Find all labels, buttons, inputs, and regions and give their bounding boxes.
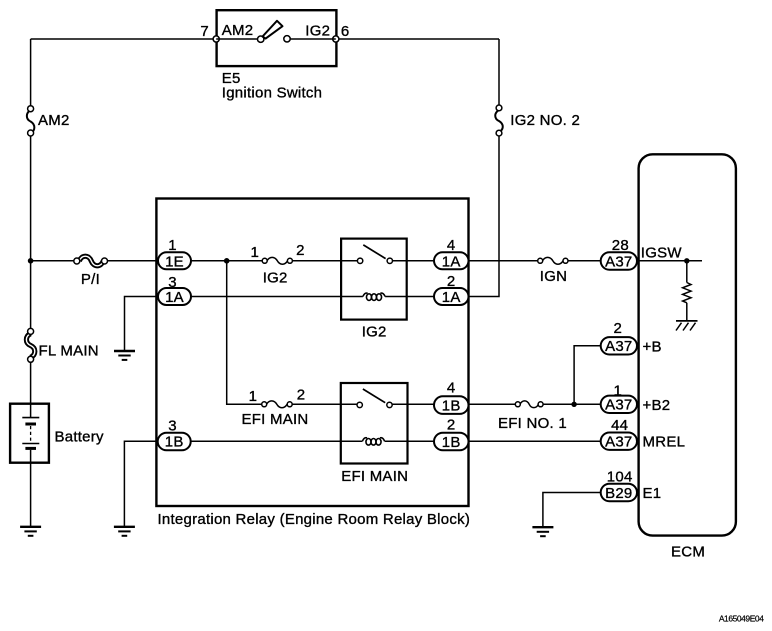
svg-text:Ignition Switch: Ignition Switch xyxy=(222,85,322,102)
wire from ignition switch pin 6 to IG2 NO.2 rail xyxy=(336,38,499,40)
svg-text:3: 3 xyxy=(168,417,177,434)
wire branch down from row1 junction to EFI MAIN fuse row xyxy=(227,261,262,405)
svg-text:1: 1 xyxy=(614,382,623,399)
wire EFI NO.1 fuse to +B2 pin xyxy=(543,403,601,405)
svg-text:IGSW: IGSW xyxy=(641,245,683,262)
label Ignition Switch xyxy=(222,85,322,102)
svg-text:1: 1 xyxy=(251,244,260,261)
label FL MAIN xyxy=(39,342,99,359)
pin B29 104 oval (E1) xyxy=(601,484,637,502)
label E1 xyxy=(643,485,662,502)
wire left rail vertical segment above AM2 fuse xyxy=(30,39,32,106)
ground for 1A pin 3 xyxy=(114,351,135,360)
label IG2 contact xyxy=(305,23,330,40)
relay IG2 box xyxy=(341,239,407,320)
wire P/I row from rail to fuse xyxy=(31,260,74,262)
wire 1B left to ground xyxy=(124,441,157,527)
switch movable contact circle xyxy=(258,36,264,42)
wire from P/I fuse to pin 1E xyxy=(108,260,161,262)
label EFI MAIN fuse xyxy=(242,411,309,428)
svg-text:E1: E1 xyxy=(643,485,662,502)
wire from 1B pin4 to EFI NO.1 fuse xyxy=(469,403,516,405)
svg-text:1A: 1A xyxy=(442,289,461,306)
node junction dot +B branch xyxy=(571,402,576,407)
pin A37 44 oval (MREL) xyxy=(601,433,637,451)
pin A37 28 oval xyxy=(601,252,637,270)
wire top horizontal from battery rail to ignition switch pin 7 xyxy=(31,38,216,40)
svg-text:2: 2 xyxy=(447,273,456,290)
fusible link P/I xyxy=(74,256,108,266)
svg-text:2: 2 xyxy=(296,242,305,259)
wire left rail from FL MAIN to battery xyxy=(30,362,32,417)
label EFI NO. 1 xyxy=(498,415,567,432)
label MREL xyxy=(643,434,686,451)
svg-text:1B: 1B xyxy=(442,434,461,451)
svg-text:1: 1 xyxy=(168,237,177,254)
svg-text:EFI NO. 1: EFI NO. 1 xyxy=(498,415,567,432)
label Integration Relay (Engine Room Relay Block) xyxy=(158,511,471,528)
label IG2 fuse xyxy=(263,269,288,286)
wire inside switch from pin 7 to movable contact xyxy=(216,38,257,40)
label +B xyxy=(643,338,662,355)
svg-text:3: 3 xyxy=(168,274,177,291)
wire 1A left to ground xyxy=(125,297,159,352)
fuse EFI NO. 1 xyxy=(515,401,543,408)
svg-text:7: 7 xyxy=(200,23,209,40)
label IG2 NO. 2 xyxy=(510,112,580,129)
fusible link FL MAIN xyxy=(26,328,34,362)
label AM2 contact xyxy=(222,22,254,39)
ignition switch box E5 xyxy=(217,10,337,66)
ground for 1B pin 3 xyxy=(114,527,135,536)
svg-text:2: 2 xyxy=(447,417,456,434)
wire branch up to +B pin xyxy=(574,346,601,405)
integration relay outer box xyxy=(156,199,468,507)
label 2 at IG2 fuse xyxy=(296,242,305,259)
svg-text:2: 2 xyxy=(614,320,623,337)
wire left rail between AM2 fuse and FL MAIN xyxy=(30,136,32,329)
label pin 3 above 1B left xyxy=(168,417,177,434)
node junction dot row1 branch xyxy=(224,258,230,264)
pin 1A right row2 oval (2) xyxy=(434,288,469,306)
svg-text:AM2: AM2 xyxy=(38,112,70,129)
label AM2 fuse xyxy=(38,112,70,129)
switch fixed contact circle xyxy=(284,36,290,42)
svg-text:FL MAIN: FL MAIN xyxy=(39,342,99,359)
svg-text:Integration Relay (Engine Room: Integration Relay (Engine Room Relay Blo… xyxy=(158,511,471,528)
label 1 at EFI MAIN fuse xyxy=(249,388,258,405)
label pin 1 above 1E xyxy=(168,237,177,254)
svg-text:28: 28 xyxy=(612,237,629,254)
pin 1E oval xyxy=(158,252,191,270)
svg-text:1: 1 xyxy=(249,388,258,405)
fuse IGN xyxy=(538,257,568,264)
label pin 104 xyxy=(607,468,633,485)
wire IGN fuse to A37 pin 28 xyxy=(568,260,601,262)
label pin 2 above +B xyxy=(614,320,623,337)
svg-text:A37: A37 xyxy=(605,338,632,355)
wire IG2 fuse to relay switch xyxy=(292,260,357,262)
svg-text:104: 104 xyxy=(607,468,633,485)
label E5 xyxy=(222,70,241,87)
wire battery negative to ground xyxy=(30,450,32,527)
label 1 at IG2 fuse xyxy=(251,244,260,261)
svg-text:1A: 1A xyxy=(165,289,184,306)
label P/I xyxy=(81,271,100,288)
relay EFI MAIN switch contacts xyxy=(357,389,392,408)
svg-text:1B: 1B xyxy=(165,434,184,451)
pin 1A right row1 oval (4) xyxy=(434,252,469,270)
fuse IG2 xyxy=(262,257,292,264)
svg-text:4: 4 xyxy=(447,380,456,397)
svg-text:+B2: +B2 xyxy=(643,397,671,414)
svg-text:2: 2 xyxy=(297,387,306,404)
wire MREL from 1B pin2 to A37 44 xyxy=(469,440,602,442)
wire E1 to ground xyxy=(543,493,601,528)
svg-text:+B: +B xyxy=(643,338,662,355)
label pin 6 xyxy=(341,23,350,40)
wire row1 from 1E to IG2 fuse xyxy=(191,260,262,262)
svg-text:IG2: IG2 xyxy=(263,269,288,286)
svg-text:IG2: IG2 xyxy=(305,23,330,40)
svg-text:1E: 1E xyxy=(165,253,184,270)
chassis ground for resistor xyxy=(676,321,698,331)
label pin 2 above right 1A row2 xyxy=(447,273,456,290)
ground battery xyxy=(20,527,41,536)
fuse EFI MAIN xyxy=(262,401,293,408)
svg-text:A165049E04: A165049E04 xyxy=(719,614,764,624)
svg-text:6: 6 xyxy=(341,23,350,40)
fuse IG2 NO.2 xyxy=(495,105,503,136)
pin 7 terminal circle xyxy=(213,36,219,42)
relay IG2 coil xyxy=(363,293,385,300)
pin A37 1 oval (+B2) xyxy=(601,396,637,414)
wire relay EFI switch to pin 4 1B xyxy=(392,403,434,405)
ECM box xyxy=(639,154,736,535)
label Battery xyxy=(55,429,105,446)
pin 1B right row3 oval (4) xyxy=(434,396,469,414)
pin 1B left oval xyxy=(158,433,191,451)
wire IGSW internal xyxy=(637,260,702,262)
wire from 1A pin4 to IGN fuse xyxy=(469,260,538,262)
svg-text:AM2: AM2 xyxy=(222,22,254,39)
svg-text:1A: 1A xyxy=(442,253,461,270)
wire row4 from 1B left through coil to 1B pin2 xyxy=(191,440,434,442)
label IG2 relay xyxy=(362,324,387,341)
relay IG2 switch contacts xyxy=(357,245,392,264)
svg-text:ECM: ECM xyxy=(671,544,705,561)
label pin 28 xyxy=(612,237,629,254)
pin A37 2 oval (+B) xyxy=(601,337,637,355)
label IGSW xyxy=(641,245,683,262)
label pin 2 above right 1B row4 xyxy=(447,417,456,434)
node junction dot at IGSW resistor xyxy=(684,258,689,263)
svg-text:A37: A37 xyxy=(605,253,632,270)
svg-text:B29: B29 xyxy=(605,485,632,502)
svg-text:A37: A37 xyxy=(605,434,632,451)
label A165049E04 xyxy=(719,614,764,624)
label +B2 xyxy=(643,397,671,414)
svg-text:IG2: IG2 xyxy=(362,324,387,341)
label ECM xyxy=(671,544,705,561)
wire inside switch from fixed contact to pin 6 xyxy=(290,38,336,40)
pin 6 terminal circle xyxy=(333,36,339,42)
relay EFI MAIN box xyxy=(341,383,408,464)
label IGN xyxy=(540,268,567,285)
label pin 3 above 1A left xyxy=(168,274,177,291)
svg-text:P/I: P/I xyxy=(81,271,100,288)
label pin 1 above +B2 xyxy=(614,382,623,399)
label pin 44 xyxy=(611,417,628,434)
svg-text:1B: 1B xyxy=(442,398,461,415)
label 2 at EFI MAIN fuse xyxy=(297,387,306,404)
svg-text:4: 4 xyxy=(447,237,456,254)
svg-text:EFI MAIN: EFI MAIN xyxy=(341,468,408,485)
label pin 4 above right 1B xyxy=(447,380,456,397)
label pin 7 xyxy=(200,23,209,40)
relay EFI MAIN coil xyxy=(362,438,384,445)
svg-text:IGN: IGN xyxy=(540,268,567,285)
svg-text:IG2 NO. 2: IG2 NO. 2 xyxy=(510,112,580,129)
pin 1A left oval xyxy=(158,288,191,306)
svg-text:Battery: Battery xyxy=(55,429,105,446)
battery cell plates xyxy=(22,418,39,449)
switch lever blade xyxy=(263,21,283,39)
ground for E1 xyxy=(532,527,553,536)
node junction dot at P/I branch xyxy=(28,258,34,264)
wire IG2 NO.2 rail down to 1A pin2 row xyxy=(469,136,500,297)
fuse AM2 xyxy=(27,106,34,136)
battery box xyxy=(10,404,49,463)
svg-text:MREL: MREL xyxy=(643,434,686,451)
pin 1B right row4 oval (2) xyxy=(434,433,469,451)
label pin 4 above right 1A xyxy=(447,237,456,254)
label EFI MAIN relay xyxy=(341,468,408,485)
wire row2 from 1A left through coil to 1A pin2 xyxy=(191,296,434,298)
wire IG2 NO.2 rail vertical upper xyxy=(498,39,500,105)
svg-text:EFI MAIN: EFI MAIN xyxy=(242,411,309,428)
svg-text:44: 44 xyxy=(611,417,628,434)
wire relay IG2 switch to pin 4 1A xyxy=(393,260,435,262)
wire EFI MAIN fuse to relay switch xyxy=(292,403,357,405)
resistor pull-down in ECM xyxy=(683,261,691,321)
